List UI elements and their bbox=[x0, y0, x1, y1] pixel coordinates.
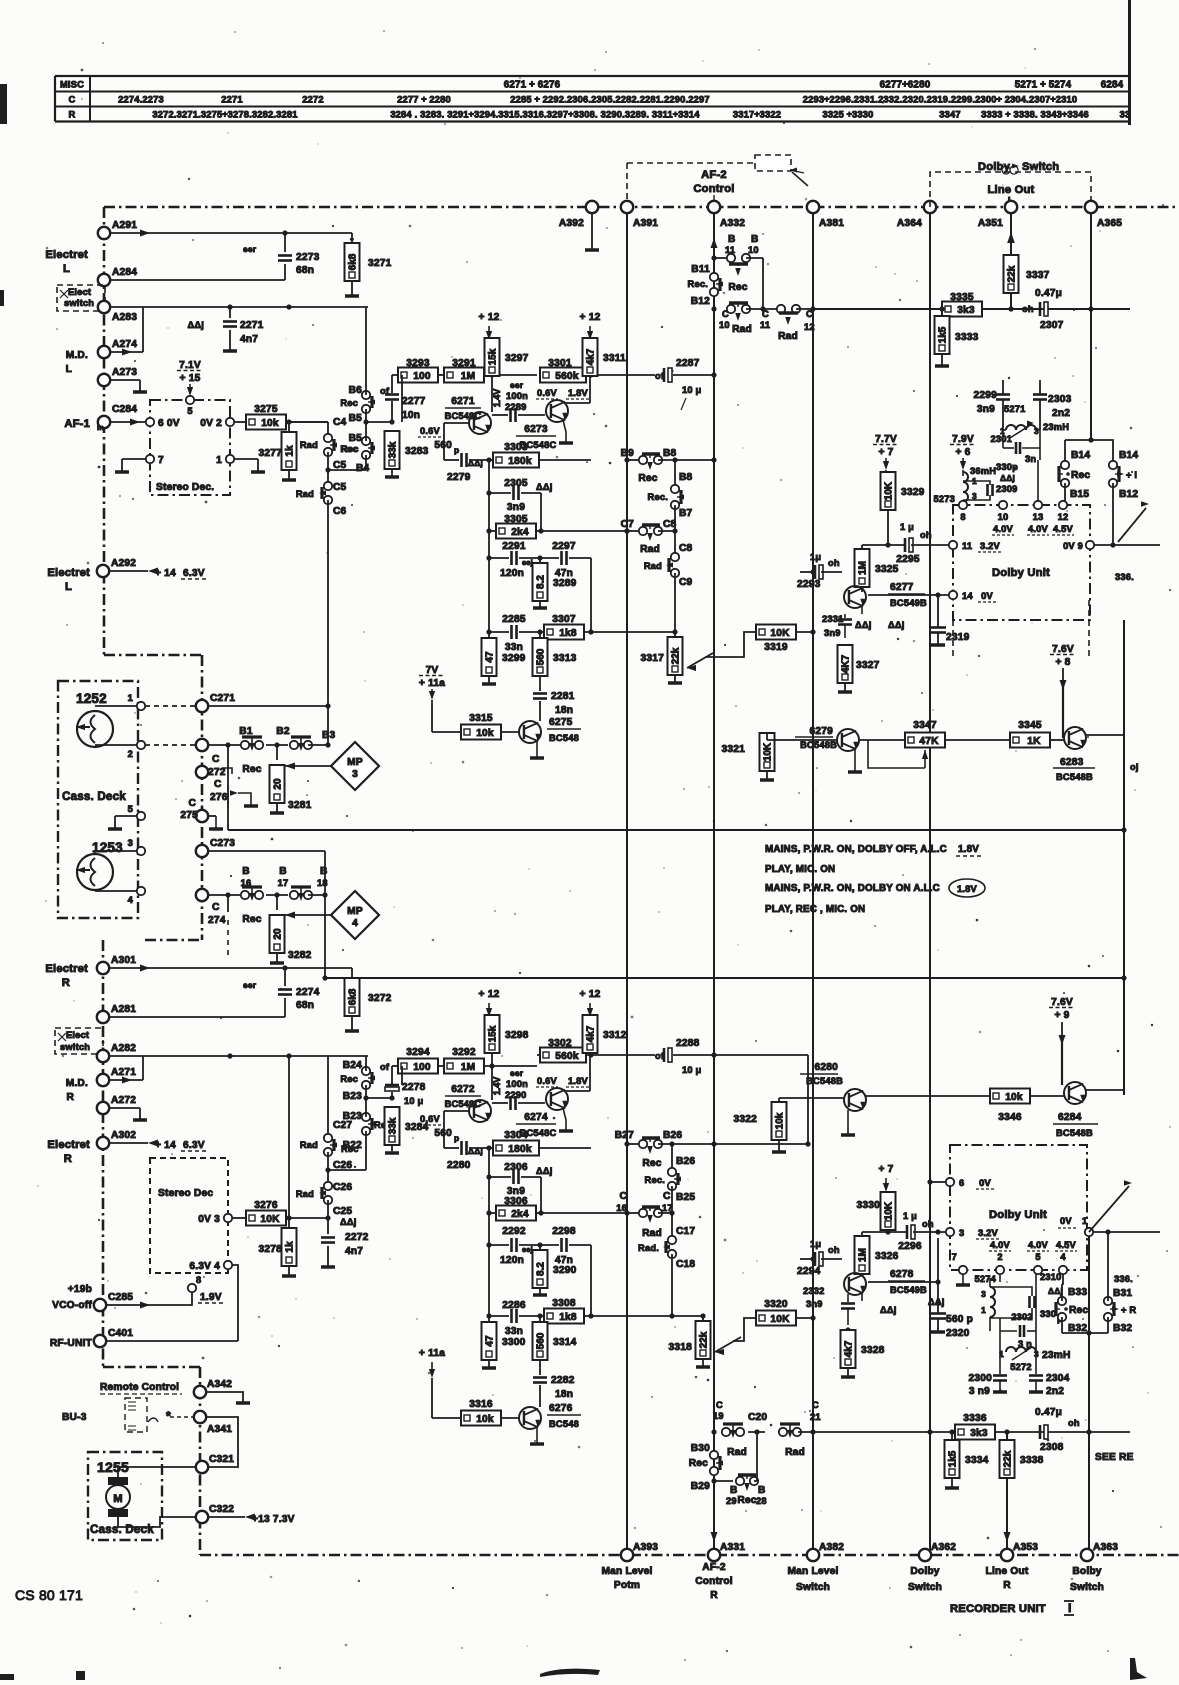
svg-text:R: R bbox=[66, 1092, 74, 1103]
svg-text:+ 7: + 7 bbox=[878, 1164, 893, 1175]
svg-text:C8: C8 bbox=[679, 543, 693, 554]
svg-text:3: 3 bbox=[981, 1289, 986, 1299]
wire bus to 2293 bbox=[812, 571, 814, 573]
svg-text:PLAY, REC , MIC. ON: PLAY, REC , MIC. ON bbox=[765, 904, 865, 915]
svg-text:ΔΔj: ΔΔj bbox=[187, 320, 204, 330]
svg-text:A392: A392 bbox=[559, 218, 584, 229]
svg-text:10k: 10k bbox=[1005, 1092, 1023, 1103]
svg-text:Rad: Rad bbox=[642, 1228, 662, 1239]
resistor 3327 4K7 bbox=[844, 632, 846, 638]
svg-text:BC549C: BC549C bbox=[445, 1099, 482, 1109]
capacitor 2301 3n bbox=[1002, 430, 1004, 448]
wire pin2 to C272 bbox=[145, 744, 198, 746]
svg-text:2304: 2304 bbox=[1046, 1373, 1070, 1384]
svg-text:2287: 2287 bbox=[676, 358, 700, 369]
svg-text:3: 3 bbox=[1034, 1349, 1039, 1359]
svg-text:3333: 3333 bbox=[955, 332, 979, 343]
svg-text:A351: A351 bbox=[978, 218, 1003, 229]
switch C17 C18 vertical bbox=[671, 1186, 673, 1213]
svg-text:6277÷6280: 6277÷6280 bbox=[880, 80, 931, 91]
svg-text:19: 19 bbox=[713, 1411, 724, 1421]
resistor 3300 47 bbox=[488, 1316, 490, 1323]
wire 3312 to collector node bbox=[589, 1053, 591, 1091]
svg-text:47K: 47K bbox=[919, 736, 939, 747]
svg-text:Dolby Unit: Dolby Unit bbox=[989, 1209, 1047, 1221]
terminal C272 bbox=[196, 739, 208, 751]
svg-text:B: B bbox=[242, 866, 250, 877]
svg-text:+ 12: + 12 bbox=[580, 312, 601, 323]
svg-text:274: 274 bbox=[208, 915, 226, 926]
svg-text:2296: 2296 bbox=[898, 1241, 922, 1252]
svg-text:10K: 10K bbox=[770, 628, 790, 639]
svg-text:2274: 2274 bbox=[296, 987, 320, 998]
svg-text:C: C bbox=[212, 902, 220, 913]
svg-text:R: R bbox=[1003, 1580, 1011, 1591]
svg-text:21: 21 bbox=[810, 1412, 821, 1422]
wire 2298 feedback down lower bbox=[590, 1245, 592, 1316]
svg-text:B5: B5 bbox=[349, 413, 363, 424]
motor M bbox=[108, 1477, 128, 1485]
arrow into A332 bbox=[711, 238, 718, 248]
resistor 3325 1M bbox=[855, 549, 870, 587]
wire A342 hook ground bbox=[206, 1392, 243, 1402]
wire C9 down bbox=[674, 573, 676, 632]
svg-text:3n9: 3n9 bbox=[806, 1299, 823, 1309]
wire C273 bus bbox=[208, 850, 325, 852]
dolby2 pin 6 bbox=[946, 1178, 954, 1186]
svg-text:3292: 3292 bbox=[452, 1047, 476, 1058]
svg-text:1k: 1k bbox=[285, 1241, 296, 1253]
svg-text:2298: 2298 bbox=[552, 1226, 576, 1237]
resistor 3347 47K pot bbox=[858, 739, 905, 741]
svg-text:+ 12: + 12 bbox=[580, 989, 601, 1000]
wire pin6 to rail bbox=[930, 1181, 946, 1183]
terminal C401 bbox=[94, 1335, 106, 1347]
svg-text:3299: 3299 bbox=[502, 653, 526, 664]
transistor 6275 emitter ground bbox=[536, 742, 538, 758]
wire motor to C321 bbox=[118, 1467, 196, 1477]
svg-text:6.3V 4: 6.3V 4 bbox=[189, 1261, 220, 1272]
svg-text:+ 12: + 12 bbox=[479, 312, 500, 323]
svg-text:7.7V: 7.7V bbox=[875, 434, 897, 445]
svg-text:A301: A301 bbox=[111, 955, 136, 966]
svg-text:eer: eer bbox=[243, 244, 257, 254]
svg-text:B1: B1 bbox=[239, 726, 253, 737]
svg-text:2309: 2309 bbox=[996, 484, 1017, 494]
svg-text:1k8: 1k8 bbox=[559, 628, 577, 639]
svg-text:560: 560 bbox=[536, 648, 547, 665]
wire C5 to B4 bbox=[328, 469, 366, 471]
main unit border left lower bbox=[102, 940, 105, 1367]
switch rad C21 bbox=[779, 1428, 787, 1436]
svg-text:3328: 3328 bbox=[861, 1345, 885, 1356]
svg-text:4.0V: 4.0V bbox=[990, 1240, 1011, 1250]
svg-text:2279: 2279 bbox=[447, 472, 471, 483]
stereo dec 1 pin 2 bbox=[226, 418, 234, 426]
wire A283 corner down B column bbox=[365, 307, 367, 395]
svg-text:RF-UNIT: RF-UNIT bbox=[50, 1338, 93, 1349]
svg-text:1k: 1k bbox=[285, 445, 296, 457]
svg-text:ΔΔj: ΔΔj bbox=[468, 1146, 483, 1156]
svg-text:C4: C4 bbox=[333, 417, 347, 428]
svg-text:6271: 6271 bbox=[451, 396, 475, 407]
svg-text:BC549B: BC549B bbox=[890, 598, 927, 608]
svg-text:Rec.: Rec. bbox=[688, 279, 708, 289]
svg-text:3333 ÷ 3338. 3343÷3346: 3333 ÷ 3338. 3343÷3346 bbox=[981, 110, 1089, 120]
svg-text:B22: B22 bbox=[343, 1140, 362, 1151]
svg-text:R: R bbox=[62, 977, 70, 989]
elect switch box L bbox=[57, 285, 105, 311]
capacitor 2272 4n7 bbox=[327, 1218, 329, 1234]
svg-text:2292: 2292 bbox=[502, 1226, 526, 1237]
terminal A353 bbox=[1001, 1549, 1013, 1561]
svg-text:B11: B11 bbox=[691, 264, 710, 275]
svg-text:2271: 2271 bbox=[221, 95, 242, 105]
svg-text:3304: 3304 bbox=[504, 1130, 528, 1141]
svg-text:L: L bbox=[63, 263, 70, 275]
AF-2 control dashed lines bbox=[626, 163, 628, 207]
svg-text:ΔΔj: ΔΔj bbox=[880, 1305, 897, 1315]
wire C285 to pin8 bbox=[106, 1304, 150, 1306]
wire AF-1 to pin6 bbox=[110, 421, 150, 423]
wire 2297 feedback down bbox=[590, 558, 592, 632]
svg-text:28: 28 bbox=[756, 1496, 767, 1506]
svg-text:13: 13 bbox=[1033, 512, 1044, 522]
svg-text:1.4V: 1.4V bbox=[492, 389, 502, 408]
dolby2 bottom pins bbox=[959, 1266, 967, 1274]
svg-text:1: 1 bbox=[216, 455, 222, 466]
scan artifact left edge bbox=[0, 84, 7, 124]
svg-text:10K: 10K bbox=[884, 1201, 895, 1220]
resistor 3297 15k bbox=[485, 338, 500, 376]
wire A274 bbox=[110, 351, 143, 353]
svg-text:Rad: Rad bbox=[644, 561, 662, 571]
svg-text:B25: B25 bbox=[676, 1192, 695, 1203]
resistor 3312 4k7 bbox=[583, 1015, 598, 1053]
svg-text:4.0V: 4.0V bbox=[1028, 1240, 1049, 1250]
svg-text:4.5V: 4.5V bbox=[1056, 1240, 1077, 1250]
transistor 6279 emitter ground bbox=[854, 750, 856, 772]
terminal A351 bbox=[1005, 201, 1017, 213]
rail A332-A331 AF-2 control R bbox=[713, 213, 715, 1549]
svg-text:3277: 3277 bbox=[259, 448, 283, 459]
dolby switch dashed box top bbox=[930, 172, 1091, 207]
svg-text:+ I: + I bbox=[1126, 470, 1137, 480]
svg-text:2310: 2310 bbox=[1040, 1272, 1061, 1282]
svg-text:4.0V: 4.0V bbox=[1028, 524, 1049, 534]
svg-text:3307: 3307 bbox=[552, 614, 576, 625]
svg-text:5274: 5274 bbox=[975, 1274, 997, 1284]
svg-text:3n9: 3n9 bbox=[507, 502, 525, 513]
resistor 3320 10K bbox=[756, 1311, 796, 1326]
svg-text:B26: B26 bbox=[663, 1130, 682, 1141]
svg-text:6280: 6280 bbox=[815, 1062, 839, 1073]
svg-text:33k: 33k bbox=[388, 441, 399, 458]
resistor 3299 47 bbox=[488, 632, 490, 639]
resistor 3333 1k5 bbox=[941, 309, 943, 316]
dolby unit 2 box bbox=[950, 1145, 1087, 1270]
arrow down into A331 bbox=[711, 1532, 718, 1542]
wire 3318 wiper to 3320 bbox=[733, 1318, 757, 1341]
svg-text:B23: B23 bbox=[343, 1091, 362, 1102]
svg-text:AF-2: AF-2 bbox=[702, 1562, 726, 1573]
svg-text:100n: 100n bbox=[506, 1079, 528, 1089]
switch C4 C5 rad/rec bbox=[286, 421, 328, 423]
svg-text:BC548B: BC548B bbox=[1056, 1128, 1093, 1138]
svg-text:Rec: Rec bbox=[340, 398, 358, 408]
svg-text:oj: oj bbox=[1130, 762, 1139, 772]
resistor 3304 180k bbox=[493, 1141, 539, 1156]
svg-text:2305: 2305 bbox=[504, 478, 528, 489]
wire pin2 pin5 stubs bbox=[999, 1274, 1001, 1318]
svg-text:3327: 3327 bbox=[856, 660, 880, 671]
stereo dec 1 pin 6 bbox=[146, 418, 154, 426]
terminal C321 bbox=[196, 1461, 208, 1473]
svg-text:560: 560 bbox=[536, 1332, 547, 1349]
wires B33 columns up bbox=[1061, 1284, 1063, 1301]
main unit border top bbox=[104, 206, 1179, 209]
svg-text:C17: C17 bbox=[676, 1226, 695, 1237]
svg-text:3297: 3297 bbox=[505, 353, 529, 364]
arrow down into A353 bbox=[1004, 1532, 1011, 1542]
stereo dec 1 pin 1 bbox=[226, 455, 234, 463]
svg-text:1k5: 1k5 bbox=[948, 1450, 959, 1467]
svg-text:18n: 18n bbox=[555, 705, 573, 716]
svg-text:10 μ: 10 μ bbox=[404, 1096, 424, 1106]
svg-text:4: 4 bbox=[1060, 1252, 1066, 1262]
svg-text:ΔΔj: ΔΔj bbox=[1048, 1286, 1063, 1296]
svg-text:2307: 2307 bbox=[1040, 320, 1064, 331]
svg-text:4k7: 4k7 bbox=[844, 1340, 855, 1357]
svg-text:C285: C285 bbox=[108, 1292, 133, 1303]
svg-text:Stereo Dec.: Stereo Dec. bbox=[156, 482, 214, 493]
svg-text:Rad: Rad bbox=[732, 324, 752, 335]
capacitor 2303 2n2 bbox=[1033, 393, 1047, 396]
svg-text:B8: B8 bbox=[663, 448, 677, 459]
capacitor 2289 100n bbox=[492, 414, 508, 416]
svg-text:3: 3 bbox=[128, 838, 133, 848]
svg-text:*: * bbox=[166, 1409, 171, 1423]
svg-text:L: L bbox=[65, 581, 72, 593]
svg-text:6276: 6276 bbox=[549, 1403, 573, 1414]
deck pin 1 bbox=[137, 702, 145, 710]
svg-text:B14: B14 bbox=[1071, 450, 1090, 461]
svg-text:C7: C7 bbox=[621, 519, 635, 530]
terminal A364 bbox=[924, 201, 936, 213]
svg-text:560k: 560k bbox=[555, 371, 579, 382]
svg-text:100n: 100n bbox=[506, 391, 528, 401]
svg-text:A274: A274 bbox=[112, 339, 137, 350]
svg-text:2306: 2306 bbox=[504, 1162, 528, 1173]
svg-text:0V: 0V bbox=[1060, 1216, 1072, 1226]
terminal A284 bbox=[98, 274, 110, 286]
terminal A271 bbox=[97, 1074, 109, 1086]
svg-text:Rec: Rec bbox=[689, 1458, 708, 1469]
terminal C271 bbox=[196, 700, 208, 712]
svg-text:2297: 2297 bbox=[552, 541, 576, 552]
svg-text:3n9: 3n9 bbox=[977, 404, 995, 415]
svg-text:+ 7: + 7 bbox=[878, 447, 893, 458]
svg-text:8.2: 8.2 bbox=[536, 1262, 547, 1276]
svg-text:A283: A283 bbox=[112, 312, 137, 323]
svg-text:switch: switch bbox=[64, 298, 94, 308]
transistor 6275 BC548 bbox=[519, 721, 541, 743]
dolby2 pin 4 bbox=[1059, 1266, 1067, 1274]
svg-text:PLAY, MIC. ON: PLAY, MIC. ON bbox=[765, 864, 835, 875]
svg-text:R: R bbox=[69, 110, 76, 120]
svg-text:A362: A362 bbox=[931, 1542, 956, 1553]
svg-text:A393: A393 bbox=[633, 1542, 658, 1553]
rail A365 dolby switch right bbox=[1090, 207, 1092, 440]
svg-text:3338: 3338 bbox=[1020, 1455, 1044, 1466]
svg-text:2280: 2280 bbox=[447, 1160, 471, 1171]
terminal C275 bbox=[196, 810, 208, 822]
terminal C284 AF-1 in bbox=[98, 416, 110, 428]
elect switch box R bbox=[55, 1028, 103, 1054]
svg-text:Rec: Rec bbox=[242, 764, 261, 775]
terminal C274 bbox=[196, 889, 208, 901]
svg-text:275: 275 bbox=[180, 810, 198, 821]
wire B10 branch down bbox=[762, 258, 764, 309]
svg-text:M: M bbox=[113, 1493, 123, 1505]
rail A391-A393 man level potm bbox=[626, 207, 628, 1555]
svg-text:6272: 6272 bbox=[451, 1084, 475, 1095]
svg-text:oh: oh bbox=[1022, 304, 1034, 314]
wire 6277 emitter bbox=[861, 607, 863, 614]
svg-text:Stereo Dec: Stereo Dec bbox=[158, 1188, 213, 1199]
rail A364-A362 dolby switch bbox=[929, 207, 931, 1555]
svg-text:ΔΔj: ΔΔj bbox=[340, 1217, 357, 1227]
svg-text:20: 20 bbox=[273, 778, 284, 790]
arrow up into A351 bbox=[1007, 232, 1015, 243]
resistor 3275 10k bbox=[234, 421, 246, 423]
svg-text:0V 3: 0V 3 bbox=[198, 1214, 220, 1225]
cass deck 1 box bbox=[58, 681, 138, 918]
svg-text:A281: A281 bbox=[111, 1004, 136, 1015]
svg-text:Line Out: Line Out bbox=[988, 184, 1035, 196]
svg-text:2277: 2277 bbox=[402, 396, 426, 407]
svg-text:ΔΔj: ΔΔj bbox=[536, 1166, 553, 1176]
resistor 3334 1k5 bbox=[951, 1432, 953, 1440]
switch C8 C9 vertical bbox=[674, 505, 676, 531]
svg-text:3k3: 3k3 bbox=[970, 1428, 988, 1439]
svg-text:C: C bbox=[212, 754, 220, 765]
svg-text:C273: C273 bbox=[210, 838, 235, 849]
wire C18 down bbox=[671, 1254, 673, 1316]
svg-text:3272: 3272 bbox=[368, 993, 392, 1004]
svg-text:Cass. Deck: Cass. Deck bbox=[62, 790, 126, 803]
svg-text:22k: 22k bbox=[699, 1331, 710, 1348]
svg-text:eej: eej bbox=[522, 1245, 533, 1254]
wire 6280 collector to 3346 bbox=[865, 1095, 990, 1097]
svg-text:A292: A292 bbox=[111, 558, 136, 569]
svg-text:MAINS, P.W.R. ON, DOLBY OFF,: MAINS, P.W.R. ON, DOLBY OFF, A.L.C bbox=[765, 844, 947, 855]
svg-text:Rad: Rad bbox=[640, 544, 660, 555]
deck pin 4 bbox=[137, 887, 145, 895]
svg-text:6: 6 bbox=[959, 1178, 964, 1188]
svg-text:10k: 10k bbox=[261, 418, 279, 429]
svg-text:12: 12 bbox=[804, 322, 815, 332]
svg-text:B12: B12 bbox=[1119, 489, 1138, 500]
svg-text:3334: 3334 bbox=[965, 1455, 989, 1466]
svg-text:ΔΔj: ΔΔj bbox=[928, 1297, 945, 1307]
svg-text:B12: B12 bbox=[691, 296, 710, 307]
svg-text:560: 560 bbox=[434, 440, 452, 451]
wire pin1 to C271 bbox=[145, 705, 198, 707]
svg-text:2282: 2282 bbox=[551, 1375, 575, 1386]
svg-text:1M: 1M bbox=[858, 1248, 869, 1262]
svg-text:eej: eej bbox=[522, 558, 533, 567]
transistor 6271 BC549C bbox=[469, 412, 491, 434]
capacitor 2309 330p bbox=[963, 480, 985, 482]
svg-text:5271 ÷ 5274: 5271 ÷ 5274 bbox=[1015, 80, 1072, 91]
svg-text:3329: 3329 bbox=[901, 487, 925, 498]
svg-text:2n2: 2n2 bbox=[1052, 408, 1070, 419]
terminal A391 bbox=[621, 201, 633, 213]
svg-text:2277 ÷ 2280: 2277 ÷ 2280 bbox=[397, 95, 451, 105]
svg-text:3325: 3325 bbox=[875, 564, 899, 575]
svg-text:5273: 5273 bbox=[934, 494, 955, 504]
svg-text:2293÷2296.2331.2332.2320.2319.: 2293÷2296.2331.2332.2320.2319.2299.2300÷… bbox=[803, 95, 1077, 105]
svg-text:B31: B31 bbox=[1113, 1288, 1132, 1299]
svg-text:12: 12 bbox=[1058, 512, 1069, 522]
svg-text:3289: 3289 bbox=[553, 578, 577, 589]
svg-text:+ 15: + 15 bbox=[180, 373, 201, 384]
svg-text:3337: 3337 bbox=[1026, 270, 1050, 281]
svg-text:+ 6: + 6 bbox=[955, 447, 970, 458]
wire C401 to pin4 bbox=[106, 1340, 238, 1342]
svg-text:ΔΔj: ΔΔj bbox=[536, 482, 553, 492]
svg-text:+19b: +19b bbox=[68, 1284, 92, 1295]
svg-text:7: 7 bbox=[952, 1252, 957, 1262]
svg-text:3347: 3347 bbox=[913, 720, 937, 731]
resistor 3328 4k7 bbox=[847, 1317, 849, 1325]
svg-text:0.6V: 0.6V bbox=[420, 1114, 441, 1124]
terminal A342 bbox=[194, 1386, 206, 1398]
svg-text:3322: 3322 bbox=[734, 1114, 758, 1125]
svg-text:3271: 3271 bbox=[368, 258, 392, 269]
svg-text:Man Level: Man Level bbox=[787, 1566, 838, 1577]
svg-text:3319: 3319 bbox=[764, 642, 788, 653]
dolby1 pin 11 bbox=[949, 541, 957, 549]
svg-text:SEE RE: SEE RE bbox=[1095, 1452, 1134, 1463]
terminal A331 bbox=[708, 1549, 720, 1561]
svg-text:C271: C271 bbox=[210, 693, 235, 704]
svg-text:BC548: BC548 bbox=[549, 1419, 579, 1429]
svg-text:4: 4 bbox=[128, 895, 134, 905]
svg-text:6.3V: 6.3V bbox=[183, 1140, 205, 1151]
svg-text:1 μ: 1 μ bbox=[903, 1211, 917, 1221]
svg-text:3317÷3322: 3317÷3322 bbox=[733, 110, 781, 120]
coil 5273 bbox=[962, 470, 964, 476]
dolby2 pin 5 bbox=[1034, 1266, 1042, 1274]
svg-text:C26: C26 bbox=[333, 1182, 352, 1193]
wire A291 to 2273 bbox=[110, 232, 285, 234]
svg-text:Elect: Elect bbox=[66, 1030, 89, 1040]
right edge vertical bus bbox=[1123, 620, 1125, 1095]
svg-text:1M: 1M bbox=[858, 561, 869, 575]
terminal A291 bbox=[98, 227, 110, 239]
svg-text:1k5: 1k5 bbox=[938, 326, 949, 343]
stereo decoder 1 box bbox=[150, 400, 230, 495]
svg-text:5271: 5271 bbox=[1004, 404, 1025, 414]
svg-text:Rec: Rec bbox=[728, 282, 747, 293]
svg-text:7: 7 bbox=[158, 455, 164, 466]
svg-text:A291: A291 bbox=[112, 220, 137, 231]
svg-text:Switch: Switch bbox=[1022, 161, 1059, 173]
svg-text:3.2V: 3.2V bbox=[978, 1228, 999, 1238]
svg-text:B: B bbox=[758, 1485, 766, 1496]
